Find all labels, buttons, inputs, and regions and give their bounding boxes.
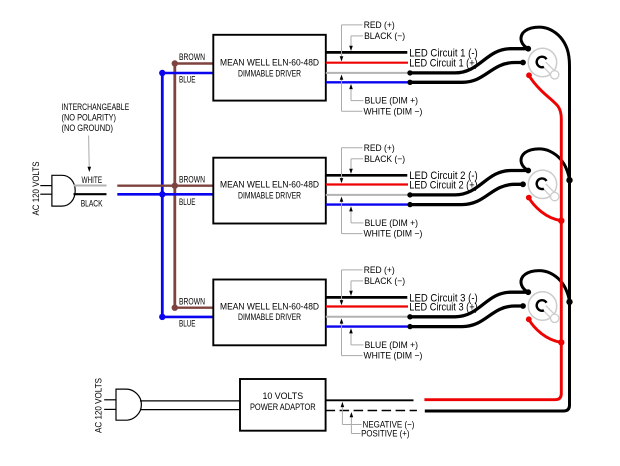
wire red output driver U3 — [326, 305, 408, 307]
wire LED circuit 2 upper to lamp — [410, 171, 528, 195]
driver U1 MEAN WELL ELN-60-48D box — [213, 35, 325, 101]
svg-text:WHITE (DIM −): WHITE (DIM −) — [364, 229, 423, 239]
label BLUE (driver 2 input) — [179, 197, 196, 207]
leader to black wire U1 — [349, 36, 363, 51]
node dim- junction U3 — [407, 324, 412, 329]
label WHITE (DIM -) driver U3 — [364, 351, 423, 361]
wire adaptor positive output (dashed) — [326, 410, 417, 412]
label AC 120 VOLTS (bottom plug) — [93, 378, 103, 433]
svg-text:BLUE (DIM +): BLUE (DIM +) — [365, 340, 418, 350]
AC plug P1 (top) — [40, 175, 75, 206]
svg-text:BLUE: BLUE — [179, 319, 196, 329]
driver U2 MEAN WELL ELN-60-48D box — [213, 158, 325, 224]
label BLACK (-) driver U2 — [364, 154, 405, 164]
svg-text:MEAN WELL ELN-60-48D: MEAN WELL ELN-60-48D — [220, 58, 319, 68]
svg-text:RED (+): RED (+) — [364, 143, 395, 153]
wire black output driver U3 — [326, 296, 408, 299]
leader to black wire U2 — [349, 159, 363, 174]
leader arrow from note to plug wires — [88, 136, 92, 173]
leader to red wire U3 — [340, 270, 363, 305]
node dim+ junction U1 — [407, 70, 412, 75]
label BLUE (DIM +) driver U1 — [365, 96, 418, 106]
svg-text:BROWN: BROWN — [179, 174, 205, 184]
node dim- junction U2 — [407, 202, 412, 207]
label BROWN (driver 3 input) — [179, 296, 205, 306]
label BLACK (-) driver U1 — [364, 31, 405, 41]
leader to black wire U3 — [349, 281, 363, 296]
leader to negative wire — [341, 402, 362, 425]
wire white dim output driver U3 — [326, 316, 410, 318]
junction brown node driver 1 — [172, 60, 178, 66]
leader to white dim wire U2 — [340, 197, 363, 234]
svg-text:WHITE (DIM −): WHITE (DIM −) — [364, 351, 423, 361]
wire LED circuit 3 lower to lamp — [410, 306, 523, 327]
svg-text:POWER ADAPTOR: POWER ADAPTOR — [250, 402, 316, 412]
LED lamp fixture LP1 — [528, 48, 559, 79]
node dim+ junction U3 — [407, 314, 412, 319]
wire red output driver U1 — [326, 62, 408, 64]
wire LED circuit 1 upper to lamp — [410, 49, 528, 73]
svg-text:LED Circuit 3 (+): LED Circuit 3 (+) — [409, 301, 478, 313]
junction blue node driver 1 — [159, 70, 165, 76]
leader to white dim wire U3 — [340, 318, 363, 355]
label BLUE (driver 3 input) — [179, 319, 196, 329]
wire LED circuit 1 lower to lamp — [410, 63, 523, 83]
node lamp LP3 terminal lower — [520, 303, 526, 309]
svg-text:BROWN: BROWN — [179, 52, 205, 62]
wire black loop lamp LP1 and trunk down right side — [425, 27, 570, 411]
label BROWN (driver 2 input) — [179, 174, 205, 184]
junction lamp LP2 red on red trunk — [558, 218, 564, 224]
label BLACK — [81, 199, 104, 209]
svg-text:MEAN WELL ELN-60-48D: MEAN WELL ELN-60-48D — [220, 180, 319, 190]
label WHITE — [82, 175, 103, 185]
label WHITE (DIM -) driver U1 — [364, 106, 423, 116]
label POSITIVE (+) — [361, 429, 409, 439]
junction brown node driver 2 — [172, 183, 178, 189]
wire blue dim output driver U1 — [326, 81, 410, 83]
wire LED circuit 3 upper to lamp — [410, 292, 528, 317]
junction lamp LP3 loop on black trunk — [566, 299, 572, 305]
svg-text:BLACK (−): BLACK (−) — [364, 276, 405, 286]
junction lamp LP3 red on red trunk — [558, 339, 564, 345]
node dim+ junction U2 — [407, 192, 412, 197]
node lamp LP2 terminal upper — [525, 168, 531, 174]
junction brown node driver 3 — [172, 305, 178, 311]
wire blue vertical feeder — [161, 73, 164, 317]
svg-text:BLUE (DIM +): BLUE (DIM +) — [365, 218, 418, 228]
leader to red wire U1 — [340, 25, 363, 62]
svg-text:INTERCHANGEABLE: INTERCHANGEABLE — [62, 102, 130, 112]
wire brown vertical feeder — [173, 64, 176, 308]
label RED (+) driver U1 — [364, 20, 395, 30]
node dim- junction U1 — [407, 80, 412, 85]
label BLUE (DIM +) driver U3 — [365, 340, 418, 350]
leader to red wire U2 — [340, 148, 363, 184]
LED lamp fixture LP3 — [528, 292, 559, 323]
wire cord upper plug P2 to adaptor — [140, 400, 240, 402]
label AC 120 VOLTS (top plug) — [31, 162, 41, 216]
node lamp LP2 terminal lower — [520, 181, 526, 187]
label RED (+) driver U2 — [364, 143, 395, 153]
leader to white dim wire U1 — [340, 75, 363, 112]
node lamp LP1 terminal lower — [520, 60, 526, 66]
svg-text:DIMMABLE DRIVER: DIMMABLE DRIVER — [238, 190, 301, 200]
junction blue node driver 2 — [159, 191, 165, 197]
label LED Circuit 2 (-) — [409, 170, 478, 182]
label LED Circuit 1 (-) — [409, 47, 478, 59]
label LED Circuit 3 (-) — [409, 292, 478, 304]
wire LED circuit 2 lower to lamp — [410, 184, 523, 204]
wire red output driver U2 — [326, 183, 408, 185]
label RED (+) driver U3 — [364, 265, 395, 275]
wire red lamp LP1 and trunk down right side — [424, 75, 561, 399]
label NEGATIVE (-) — [363, 420, 415, 430]
svg-text:BLACK (−): BLACK (−) — [364, 154, 405, 164]
svg-text:10 VOLTS: 10 VOLTS — [263, 391, 304, 401]
leader to blue dim wire U2 — [349, 206, 363, 223]
wire white from plug P1 — [74, 185, 107, 187]
leader to blue dim wire U3 — [349, 328, 363, 345]
wire brown branch to driver U3 — [175, 307, 214, 309]
wire cord lower plug P2 to adaptor — [141, 409, 241, 411]
wire blue branch to driver U1 — [162, 72, 213, 75]
wire blue branch to driver U3 — [162, 316, 213, 319]
svg-text:LED Circuit 2 (+): LED Circuit 2 (+) — [409, 179, 478, 191]
svg-text:DIMMABLE DRIVER: DIMMABLE DRIVER — [238, 312, 301, 322]
wire black loop lamp LP2 to trunk — [521, 149, 570, 180]
node lamp LP2 red terminal — [526, 195, 532, 201]
wire adaptor negative output (solid) — [326, 399, 414, 401]
wire brown feed to driver U2 — [117, 184, 213, 186]
node lamp LP1 terminal upper — [525, 46, 531, 52]
label BROWN (driver 1 input) — [179, 52, 205, 62]
power adaptor U4 box 10 VOLTS — [240, 379, 326, 431]
wire white dim output driver U1 — [326, 72, 410, 74]
label LED Circuit 3 (+) — [409, 301, 478, 313]
label LED Circuit 1 (+) — [409, 58, 478, 70]
label LED Circuit 2 (+) — [409, 179, 478, 191]
wire blue dim output driver U3 — [326, 325, 410, 327]
wire black output driver U1 — [326, 51, 408, 54]
svg-text:WHITE: WHITE — [82, 175, 103, 185]
svg-text:(NO GROUND): (NO GROUND) — [62, 123, 114, 133]
svg-text:WHITE (DIM −): WHITE (DIM −) — [364, 106, 423, 116]
driver U3 MEAN WELL ELN-60-48D box — [213, 280, 325, 346]
leader to blue dim wire U1 — [349, 84, 363, 101]
wire black from plug P1 — [74, 193, 107, 195]
LED lamp fixture LP2 — [528, 170, 559, 201]
node lamp LP3 red terminal — [526, 316, 532, 322]
AC plug P2 (bottom) — [104, 389, 141, 420]
junction lamp LP2 loop on black trunk — [566, 177, 572, 183]
wire red lamp LP3 to trunk — [529, 319, 562, 342]
svg-text:BLACK: BLACK — [81, 199, 104, 209]
svg-text:POSITIVE (+): POSITIVE (+) — [361, 429, 409, 439]
leader to positive wire — [350, 412, 361, 433]
svg-text:BLUE (DIM +): BLUE (DIM +) — [365, 96, 418, 106]
wire black output driver U2 — [326, 174, 408, 177]
wire black loop lamp LP3 to trunk — [521, 271, 570, 302]
wire brown branch to driver U1 — [175, 62, 214, 64]
svg-text:RED (+): RED (+) — [364, 20, 395, 30]
label WHITE (DIM -) driver U2 — [364, 229, 423, 239]
wire blue feed to driver U2 — [117, 193, 213, 196]
label BLACK (-) driver U3 — [364, 276, 405, 286]
svg-text:DIMMABLE DRIVER: DIMMABLE DRIVER — [238, 68, 301, 78]
svg-text:MEAN WELL ELN-60-48D: MEAN WELL ELN-60-48D — [220, 302, 319, 312]
note INTERCHANGEABLE (NO POLARITY) (NO GROUND) — [62, 102, 130, 133]
label BLUE (DIM +) driver U2 — [365, 218, 418, 228]
wire blue dim output driver U2 — [326, 203, 410, 205]
label BLUE (driver 1 input) — [179, 75, 196, 85]
wire white dim output driver U2 — [326, 194, 410, 196]
node lamp LP3 terminal upper — [525, 289, 531, 295]
svg-text:AC 120 VOLTS: AC 120 VOLTS — [31, 162, 41, 216]
svg-text:AC 120 VOLTS: AC 120 VOLTS — [93, 378, 103, 433]
svg-text:(NO POLARITY): (NO POLARITY) — [62, 113, 117, 123]
svg-text:RED (+): RED (+) — [364, 265, 395, 275]
svg-text:LED Circuit 1 (+): LED Circuit 1 (+) — [409, 58, 478, 70]
svg-text:BLACK (−): BLACK (−) — [364, 31, 405, 41]
svg-text:BLUE: BLUE — [179, 197, 196, 207]
junction blue node driver 3 — [159, 314, 165, 320]
svg-text:BLUE: BLUE — [179, 75, 196, 85]
wire red lamp LP2 to trunk — [529, 198, 562, 221]
svg-text:BROWN: BROWN — [179, 296, 205, 306]
node lamp LP1 red terminal — [526, 72, 532, 78]
